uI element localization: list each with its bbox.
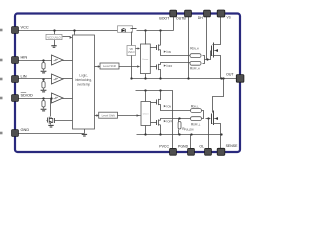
transistor Q6 high-side power FET [212,17,221,79]
wire RONH-ROFFH join [203,56,205,64]
op-amp U6 VCC UVLO box [46,34,62,39]
logic block U1 [73,35,95,129]
node OUT-uvlo [130,77,132,79]
wire VCC rail [19,30,118,32]
wire GND [19,133,85,135]
svg-text:overtemp: overtemp [77,82,91,86]
pin PGND [178,145,194,156]
level shifter U2 [100,63,119,69]
pin DH [198,10,211,20]
driver U4 high side [141,31,151,79]
wire logic ground stub [84,129,86,134]
svg-text:OFF_H: OFF_H [192,69,200,71]
IC boundary border [15,14,240,153]
pin VCC [12,25,29,34]
wire BOOT pin riser [173,17,175,31]
wire HIN buffer to logic [63,60,73,62]
wire SD/OD input [19,98,52,100]
resistor ROFF_H [190,61,201,70]
node boot rail fet [159,29,161,31]
svg-text:OUTB: OUTB [176,16,186,20]
transistor Q2 sink IOFF high [151,63,191,79]
node VCC-UVLO junction [53,29,55,31]
svg-text:SENSE: SENSE [226,144,239,148]
pin BOOT [159,10,176,20]
ground SD pulldown [41,109,47,111]
transistor Q3 source ION low [151,91,191,111]
wire PGND pin riser [190,135,192,149]
svg-text:interlocking,: interlocking, [75,78,92,82]
node PGND-fet [159,133,161,135]
svg-text:OFF: OFF [168,122,173,124]
wire LIN input [19,78,52,80]
wire level shifter 1 to driver 1 [119,66,140,68]
resistor ROFF_L [191,117,202,127]
op-amp U7 VB UVLO box [127,32,140,79]
wire UVLO to ground [54,40,56,46]
wire UVLO tap [54,31,56,35]
node PGND-sense [220,133,222,135]
svg-text:VS: VS [227,16,231,20]
svg-text:UVLO: UVLO [128,51,135,54]
resistor R2 LIN pulldown [42,78,44,80]
svg-text:OL: OL [199,145,204,149]
transistor Q5 open-drain OD [47,97,73,124]
wire HIN input [19,60,52,62]
ground HIN pulldown [41,71,47,73]
node OUT-ls-drain [222,77,224,79]
pin VIN [217,10,231,20]
pin PVCC [159,145,176,156]
svg-text:HIN: HIN [21,55,28,60]
pin GND [12,127,30,137]
svg-text:SD/OD: SD/OD [21,93,34,98]
svg-text:PVCC: PVCC [159,145,169,149]
node boot rail driver [144,29,146,31]
wire SD buffer to logic [63,98,73,100]
resistor RPULLDOWN [178,117,194,134]
buffer A3 SD schmitt [52,93,64,103]
left edge external stubs [0,29,3,135]
svg-text:GND: GND [21,127,30,132]
transistor Q7 low-side power FET [212,79,224,149]
buffer A2 LIN schmitt [52,74,64,84]
wire OD gate from logic [55,120,73,122]
ground logic [82,134,87,136]
svg-text:PGND: PGND [178,145,189,149]
svg-text:VCC: VCC [21,25,29,30]
svg-text:ON: ON [168,107,172,109]
pin OUTB [176,10,191,20]
resistor R1 HIN pulldown [42,59,44,61]
node OUT-hs-source [220,77,222,79]
node PVCC-fet [159,89,161,91]
wire OUT rail [131,78,237,80]
wire logic to level shifter 1 [95,66,99,68]
svg-text:OFF_L: OFF_L [193,125,201,127]
svg-text:Level Shift: Level Shift [102,113,115,117]
svg-text:OFF: OFF [168,66,173,68]
wire RONL-ROFFL join [202,111,204,119]
svg-text:ON: ON [168,52,172,54]
wire logic to level shifter 2 [95,115,98,117]
wire bootstrap rail [137,30,174,32]
wire PVCC rail [136,91,173,149]
ground LIN pulldown [41,90,47,92]
pin SENSE [217,144,238,155]
node high gate [206,58,208,60]
node PVCC-driver [144,89,146,91]
buffer A1 HIN schmitt [52,55,64,65]
pin OUT [226,72,244,82]
resistor RON_H [190,46,201,57]
svg-text:DH: DH [198,16,204,20]
wire UVLO output arrow to logic [63,36,71,38]
node PGND-rpulldown [178,133,180,135]
wire OL pin riser [208,119,210,149]
level shifter U3 [99,112,118,118]
diode D1 bootstrap [118,26,137,33]
svg-text:BOOT: BOOT [159,16,170,20]
wire OUTB pin riser [188,17,190,79]
svg-text:ON_H: ON_H [192,49,199,51]
resistor R3 SD pulldown [42,97,44,99]
svg-text:PULLDN: PULLDN [184,130,193,132]
ground UVLO [51,46,56,48]
pin HIN [12,55,28,64]
node PGND-driver [144,133,146,135]
pin SD/OD [12,93,33,102]
node OUT-outb [187,77,189,79]
wire level shifter 2 to driver 2 [118,115,141,117]
svg-text:LIN: LIN [21,74,27,79]
wire high gate node [205,51,211,60]
wire DH pin riser [206,17,208,60]
transistor Q1 source ION high [151,31,191,56]
node VCC-logic junction [73,29,75,31]
svg-text:Driver: Driver [142,58,148,61]
pin OL [199,145,211,156]
node low gate [207,117,209,119]
svg-text:OUT: OUT [226,72,234,76]
resistor RON_L [191,104,202,112]
svg-text:Logic,: Logic, [79,73,88,77]
transistor Q4 sink IOFF low [151,119,191,135]
ground OD source [48,125,53,127]
node PGND-pin [190,133,192,135]
wire VCC into logic top [74,31,76,35]
wire low gate node [206,118,211,120]
node OUT-fet [159,77,161,79]
svg-text:Level Shift: Level Shift [103,64,116,68]
wire PGND rail [137,134,221,136]
pin LIN [12,74,27,83]
wire LIN buffer to logic [63,78,73,80]
svg-text:Driver: Driver [143,113,149,116]
driver U5 low side [141,91,151,135]
svg-text:VCC UVLO: VCC UVLO [47,35,60,39]
node OUT-driver [144,77,146,79]
